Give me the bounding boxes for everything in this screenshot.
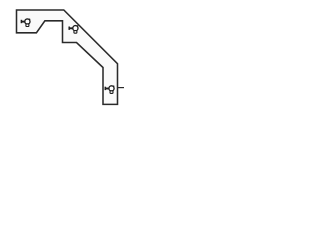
lamp L3 [105, 85, 114, 93]
lamp L2 [69, 25, 78, 33]
wall tick [118, 87, 125, 89]
corridor outline [17, 10, 118, 104]
lamp L1 [21, 18, 30, 26]
